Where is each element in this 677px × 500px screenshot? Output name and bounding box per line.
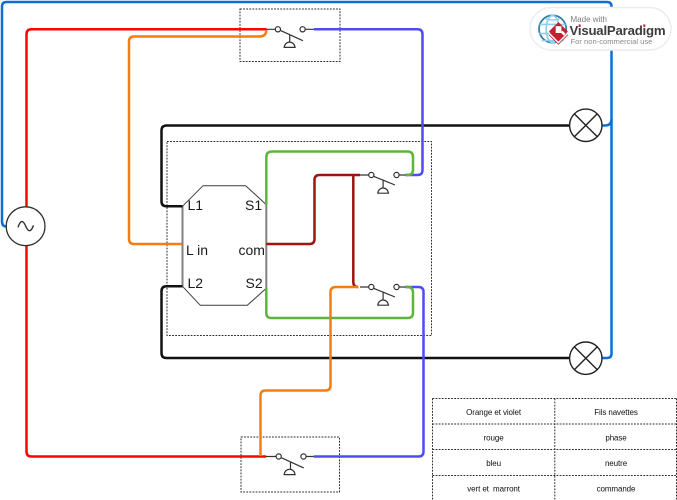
svg-text:S2: S2 [246, 275, 263, 291]
svg-text:bleu: bleu [486, 459, 501, 468]
svg-text:L in: L in [186, 242, 208, 258]
svg-text:For non-commercial use: For non-commercial use [571, 37, 653, 46]
svg-text:commande: commande [597, 485, 636, 494]
svg-text:rouge: rouge [484, 434, 505, 443]
svg-text:com: com [239, 242, 265, 258]
svg-text:L2: L2 [188, 275, 204, 291]
svg-text:vert et marront: vert et marront [467, 485, 521, 494]
svg-text:neutre: neutre [605, 459, 628, 468]
svg-text:phase: phase [605, 434, 627, 443]
svg-text:Orange et violet: Orange et violet [466, 408, 522, 417]
svg-text:L1: L1 [188, 197, 204, 213]
svg-text:Fils navettes: Fils navettes [594, 408, 638, 417]
svg-text:S1: S1 [245, 197, 262, 213]
